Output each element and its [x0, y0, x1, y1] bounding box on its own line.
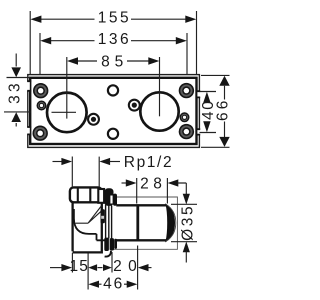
svg-text:85: 85 [101, 53, 128, 70]
nut facet line right [89, 188, 91, 202]
dimension 15 [50, 258, 89, 275]
Rp 1/2 callout [53, 154, 174, 171]
small screw mid-left [37, 101, 47, 111]
dimension 136 [40, 31, 187, 74]
plate face (thick inner rect) [30, 78, 196, 144]
svg-text:0: 0 [128, 258, 137, 275]
dimension 40 (right inner, vertical) [200, 92, 218, 133]
elbow body outline [73, 203, 102, 254]
screw bottom-left [33, 126, 48, 141]
svg-text:46: 46 [103, 276, 124, 293]
svg-text:15: 15 [69, 258, 89, 275]
bottom extension lines [87, 254, 89, 290]
svg-text:33: 33 [7, 80, 24, 104]
bracket clamp [101, 209, 105, 223]
hole bottom [108, 129, 118, 139]
recess box thin outline [113, 197, 177, 249]
dimension 20 [113, 258, 151, 275]
screw top-left [33, 83, 48, 98]
notch bottom-right [196, 129, 200, 134]
svg-text:66: 66 [214, 97, 231, 121]
centerline vertical left circle (85 ext) [66, 57, 68, 119]
notch top-right [196, 91, 200, 97]
centerline vertical right circle (85 ext) [159, 57, 161, 116]
svg-text:28: 28 [140, 176, 166, 193]
extension line Rp right (x=99.2) [98, 157, 100, 187]
svg-text:155: 155 [98, 9, 131, 26]
svg-text:Rp1/2: Rp1/2 [124, 154, 173, 171]
joint line on spigot [136, 204, 139, 241]
svg-text:Ø35: Ø35 [180, 204, 197, 241]
screw bottom-right [179, 124, 194, 139]
screw top-right [179, 83, 194, 98]
small screw mid-right [180, 112, 190, 122]
notch bottom-left [27, 127, 32, 134]
spigot [116, 204, 176, 241]
dimension 85 [67, 53, 159, 70]
bracket top fastener [98, 188, 117, 206]
dimension ø35 [171, 194, 197, 263]
hole top [108, 85, 118, 95]
union nut [70, 187, 102, 202]
spigot end cap [166, 204, 175, 241]
dimension 155 [30, 9, 196, 74]
flow pointer lines [76, 206, 104, 224]
long extension line left (x=72.3) [71, 157, 73, 273]
double arrow between 15 and 20 [88, 264, 112, 271]
adjuster screw right [128, 99, 141, 112]
port circle left [47, 93, 87, 133]
bracket rails [105, 205, 107, 239]
adjuster screw left [87, 113, 100, 126]
dimension 28 [122, 176, 187, 204]
svg-text:136: 136 [98, 31, 131, 48]
elbow inner curve [74, 209, 105, 240]
svg-text:2: 2 [113, 258, 122, 275]
nut facet line left [77, 188, 79, 202]
port circle right [140, 92, 178, 130]
centerline horizontal left circle [52, 111, 77, 113]
dimension 66 (right outer, vertical) [201, 75, 231, 147]
dimension 46 [88, 276, 137, 293]
dimension 33 (left, vertical) [4, 54, 31, 127]
plate rim (thin outer rect) [28, 75, 200, 148]
bracket bottom fastener [104, 238, 117, 257]
notch top-left [27, 81, 32, 91]
